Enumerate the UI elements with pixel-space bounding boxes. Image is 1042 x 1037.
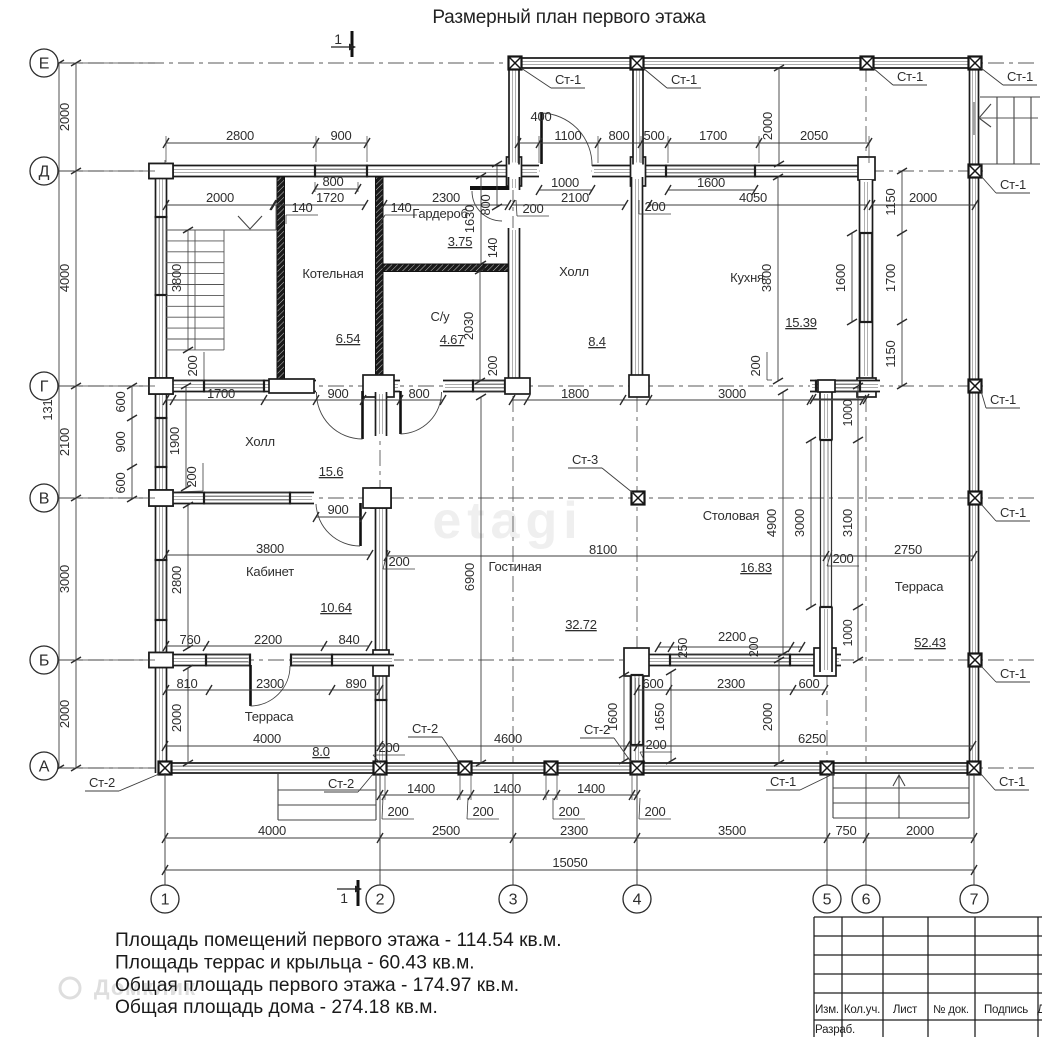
svg-text:6.54: 6.54	[336, 331, 361, 346]
svg-text:200: 200	[748, 355, 763, 376]
svg-text:1400: 1400	[493, 781, 521, 796]
svg-text:2200: 2200	[254, 632, 282, 647]
svg-text:10.64: 10.64	[320, 600, 352, 615]
svg-text:В: В	[39, 491, 49, 508]
svg-text:1000: 1000	[841, 399, 855, 426]
svg-text:Д: Д	[39, 164, 50, 181]
svg-text:1720: 1720	[316, 190, 344, 205]
svg-text:2500: 2500	[432, 823, 460, 838]
svg-text:Лист: Лист	[893, 1004, 918, 1016]
svg-text:Терраса: Терраса	[245, 709, 294, 724]
svg-text:3.75: 3.75	[448, 234, 473, 249]
svg-text:1150: 1150	[883, 340, 898, 367]
svg-text:52.43: 52.43	[914, 635, 946, 650]
svg-text:2200: 2200	[718, 629, 746, 644]
svg-text:800: 800	[478, 194, 493, 215]
svg-text:1600: 1600	[833, 264, 848, 292]
svg-text:6900: 6900	[462, 563, 477, 591]
svg-text:600: 600	[642, 676, 663, 691]
svg-text:Гардероб: Гардероб	[412, 206, 468, 221]
svg-text:5: 5	[823, 892, 832, 909]
svg-text:32.72: 32.72	[565, 617, 597, 632]
svg-text:200: 200	[558, 804, 579, 819]
svg-text:15.39: 15.39	[785, 315, 817, 330]
svg-text:200: 200	[747, 637, 761, 658]
svg-text:200: 200	[378, 740, 399, 755]
svg-text:200: 200	[486, 356, 500, 377]
svg-text:Размерный план первого этажа: Размерный план первого этажа	[432, 7, 706, 28]
svg-text:200: 200	[645, 737, 666, 752]
svg-text:№ док.: № док.	[933, 1004, 969, 1016]
svg-text:2300: 2300	[432, 190, 460, 205]
svg-text:760: 760	[179, 632, 200, 647]
svg-text:2100: 2100	[561, 190, 589, 205]
svg-text:2300: 2300	[717, 676, 745, 691]
svg-text:1600: 1600	[697, 175, 725, 190]
svg-text:8.4: 8.4	[588, 334, 605, 349]
svg-text:900: 900	[113, 431, 128, 452]
svg-text:16.83: 16.83	[740, 560, 772, 575]
svg-text:140: 140	[291, 200, 312, 215]
svg-text:Холл: Холл	[245, 434, 275, 449]
svg-text:Площадь помещений первого этаж: Площадь помещений первого этажа - 114.54…	[115, 930, 562, 951]
svg-text:Котельная: Котельная	[302, 266, 363, 281]
svg-text:Ст-1: Ст-1	[1007, 69, 1033, 84]
svg-text:3800: 3800	[169, 264, 184, 292]
svg-text:2000: 2000	[206, 190, 234, 205]
svg-text:200: 200	[644, 804, 665, 819]
svg-text:200: 200	[387, 804, 408, 819]
svg-text:3000: 3000	[792, 509, 807, 537]
svg-text:3800: 3800	[256, 541, 284, 556]
svg-text:Площадь террас и крыльца - 60: Площадь террас и крыльца - 60.43 кв.м.	[115, 952, 475, 973]
svg-text:Ст-1: Ст-1	[555, 72, 581, 87]
svg-text:Ст-1: Ст-1	[671, 72, 697, 87]
svg-text:800: 800	[408, 386, 429, 401]
svg-text:4000: 4000	[258, 823, 286, 838]
svg-text:Е: Е	[39, 56, 49, 73]
svg-text:3800: 3800	[759, 264, 774, 292]
svg-text:Кол.уч.: Кол.уч.	[844, 1004, 880, 1016]
svg-text:Ст-1: Ст-1	[990, 392, 1016, 407]
svg-text:Кабинет: Кабинет	[246, 564, 294, 579]
svg-text:Ст-2: Ст-2	[328, 776, 354, 791]
svg-text:15.6: 15.6	[319, 464, 344, 479]
svg-text:Общая площадь первого этажа -: Общая площадь первого этажа - 174.97 кв.…	[115, 975, 519, 996]
svg-text:1: 1	[340, 890, 348, 906]
svg-text:Б: Б	[39, 653, 49, 670]
svg-text:8100: 8100	[589, 542, 617, 557]
svg-text:2000: 2000	[760, 703, 775, 731]
svg-text:4: 4	[633, 892, 642, 909]
svg-text:15050: 15050	[552, 855, 587, 870]
svg-text:200: 200	[472, 804, 493, 819]
svg-text:1700: 1700	[699, 128, 727, 143]
svg-text:Ст-1: Ст-1	[999, 774, 1025, 789]
svg-text:Изм.: Изм.	[815, 1004, 839, 1016]
svg-text:2750: 2750	[894, 542, 922, 557]
svg-text:Г: Г	[40, 379, 49, 396]
svg-text:200: 200	[184, 466, 199, 487]
svg-text:Ст-2: Ст-2	[89, 775, 115, 790]
svg-text:4900: 4900	[764, 509, 779, 537]
svg-text:900: 900	[327, 386, 348, 401]
svg-text:1: 1	[334, 31, 342, 47]
svg-text:890: 890	[345, 676, 366, 691]
svg-text:140: 140	[486, 238, 500, 259]
svg-text:1800: 1800	[561, 386, 589, 401]
svg-text:500: 500	[643, 128, 664, 143]
svg-text:1900: 1900	[167, 427, 182, 455]
svg-text:200: 200	[522, 201, 543, 216]
svg-text:200: 200	[832, 551, 853, 566]
svg-text:3100: 3100	[840, 509, 855, 537]
svg-text:2: 2	[376, 892, 385, 909]
svg-text:140: 140	[390, 200, 411, 215]
svg-text:Общая площадь дома - 274.18 кв: Общая площадь дома - 274.18 кв.м.	[115, 997, 438, 1018]
svg-text:Столовая: Столовая	[703, 508, 760, 523]
svg-text:200: 200	[185, 355, 200, 376]
svg-text:etagi: etagi	[432, 492, 583, 550]
svg-text:Терраса: Терраса	[895, 579, 944, 594]
svg-text:Ст-1: Ст-1	[897, 69, 923, 84]
svg-text:Ст-1: Ст-1	[1000, 666, 1026, 681]
svg-text:Подпись: Подпись	[984, 1004, 1028, 1016]
svg-text:2300: 2300	[256, 676, 284, 691]
svg-text:1000: 1000	[841, 619, 855, 646]
svg-text:1100: 1100	[554, 128, 581, 143]
svg-text:2000: 2000	[760, 112, 775, 140]
svg-text:4050: 4050	[739, 190, 767, 205]
svg-text:А: А	[39, 759, 50, 776]
svg-text:900: 900	[327, 502, 348, 517]
svg-text:2030: 2030	[461, 312, 476, 340]
svg-text:Ст-1: Ст-1	[1000, 505, 1026, 520]
svg-text:3500: 3500	[718, 823, 746, 838]
svg-text:1: 1	[161, 892, 170, 909]
svg-text:3: 3	[509, 892, 518, 909]
svg-text:810: 810	[176, 676, 197, 691]
svg-text:4000: 4000	[253, 731, 281, 746]
svg-text:200: 200	[388, 554, 409, 569]
svg-text:2800: 2800	[169, 566, 184, 594]
svg-text:1150: 1150	[883, 188, 898, 215]
svg-text:С/у: С/у	[431, 309, 451, 324]
svg-text:Ст-2: Ст-2	[584, 722, 610, 737]
svg-text:1630: 1630	[462, 205, 477, 233]
svg-text:Ст-1: Ст-1	[1000, 177, 1026, 192]
svg-text:4600: 4600	[494, 731, 522, 746]
svg-text:2800: 2800	[226, 128, 254, 143]
svg-text:840: 840	[338, 632, 359, 647]
svg-text:6: 6	[862, 892, 871, 909]
svg-text:Гостиная: Гостиная	[489, 559, 542, 574]
svg-text:1650: 1650	[652, 703, 667, 731]
svg-text:2300: 2300	[560, 823, 588, 838]
svg-text:750: 750	[835, 823, 856, 838]
svg-text:2000: 2000	[906, 823, 934, 838]
svg-text:200: 200	[644, 199, 665, 214]
svg-text:250: 250	[676, 638, 690, 659]
svg-text:7: 7	[970, 892, 979, 909]
svg-text:600: 600	[798, 676, 819, 691]
svg-text:800: 800	[322, 174, 343, 189]
svg-text:Ст-1: Ст-1	[770, 774, 796, 789]
svg-text:600: 600	[113, 472, 128, 493]
svg-text:Холл: Холл	[559, 264, 589, 279]
svg-text:Разраб.: Разраб.	[815, 1024, 855, 1036]
svg-text:1700: 1700	[883, 264, 898, 292]
svg-text:2050: 2050	[800, 128, 828, 143]
svg-text:Ст-3: Ст-3	[572, 452, 598, 467]
svg-text:400: 400	[530, 109, 551, 124]
svg-text:2000: 2000	[169, 704, 184, 732]
svg-text:2000: 2000	[909, 190, 937, 205]
svg-text:1000: 1000	[551, 175, 579, 190]
svg-text:1400: 1400	[407, 781, 435, 796]
svg-text:600: 600	[113, 391, 128, 412]
svg-text:1400: 1400	[577, 781, 605, 796]
svg-text:3000: 3000	[718, 386, 746, 401]
svg-text:Д: Д	[1037, 1004, 1042, 1016]
svg-text:800: 800	[608, 128, 629, 143]
svg-text:1700: 1700	[207, 386, 235, 401]
svg-text:900: 900	[330, 128, 351, 143]
svg-text:6250: 6250	[798, 731, 826, 746]
svg-text:Ст-2: Ст-2	[412, 721, 438, 736]
